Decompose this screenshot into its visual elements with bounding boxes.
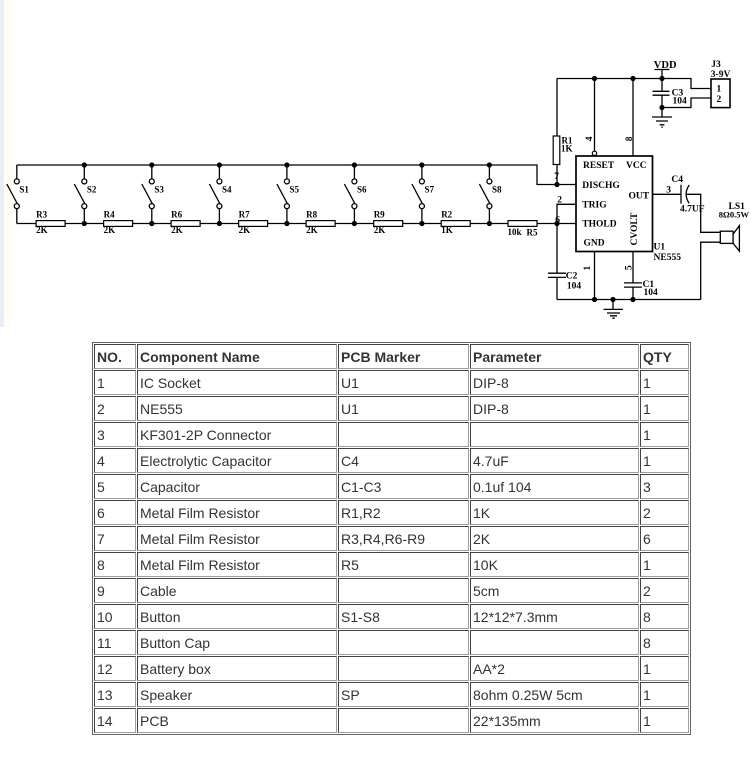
resistor R7 [239, 210, 268, 235]
switch S7 [412, 165, 425, 224]
svg-text:J3: J3 [711, 60, 721, 70]
node junction top [82, 162, 87, 167]
svg-text:2K: 2K [374, 225, 386, 235]
resistor R8 [306, 210, 335, 235]
switch S2 [74, 165, 87, 224]
resistor R2 [441, 210, 470, 235]
node C3 junction [659, 105, 664, 110]
svg-text:4: 4 [585, 136, 595, 141]
svg-text:R9: R9 [374, 210, 385, 220]
svg-text:S1: S1 [19, 184, 29, 194]
svg-text:S6: S6 [357, 184, 367, 194]
svg-text:R7: R7 [239, 210, 250, 220]
svg-text:GND: GND [584, 238, 605, 248]
svg-text:1: 1 [717, 85, 722, 95]
wire [17, 165, 576, 185]
node junction top [419, 162, 424, 167]
switch S6 [344, 165, 357, 224]
svg-text:2K: 2K [306, 225, 318, 235]
node junction bottom [82, 221, 87, 226]
svg-text:104: 104 [673, 97, 688, 107]
svg-text:U1: U1 [654, 242, 666, 252]
switch S5 [277, 165, 290, 224]
wire VDD rail [557, 79, 711, 89]
node junction top [284, 162, 289, 167]
node dots top rail [554, 76, 664, 302]
resistor R9 [374, 210, 403, 235]
svg-text:VDD: VDD [654, 60, 677, 71]
switch S4 [209, 165, 222, 224]
svg-text:S2: S2 [87, 184, 97, 194]
node junction top [217, 162, 222, 167]
svg-text:DISCHG: DISCHG [582, 181, 620, 191]
node junction bottom [284, 221, 289, 226]
capacitor C4 [681, 185, 689, 204]
resistor R5 [508, 221, 538, 238]
svg-text:C2: C2 [566, 271, 578, 281]
svg-text:CVOLT: CVOLT [630, 212, 640, 245]
svg-text:2: 2 [717, 95, 722, 105]
node junction bottom [419, 221, 424, 226]
node junction bottom [217, 221, 222, 226]
node junction bottom [487, 221, 492, 226]
node junction top [149, 162, 154, 167]
switch S3 [142, 165, 155, 224]
svg-text:OUT: OUT [629, 191, 650, 201]
svg-text:S5: S5 [290, 184, 300, 194]
switch S8 [479, 165, 492, 224]
wire [17, 223, 576, 225]
switch S1 [7, 165, 19, 224]
svg-text:R8: R8 [306, 210, 317, 220]
svg-text:R3: R3 [36, 210, 47, 220]
svg-text:104: 104 [567, 282, 582, 292]
svg-text:S4: S4 [222, 184, 232, 194]
op-amp U1 555 IC box [576, 151, 653, 251]
svg-text:THOLD: THOLD [582, 219, 616, 229]
svg-text:C4: C4 [671, 175, 683, 185]
pin number labels [554, 60, 749, 298]
svg-text:S8: S8 [492, 184, 502, 194]
ground main stub [604, 300, 624, 319]
speaker LS1 [720, 226, 739, 252]
wire OUT to speaker [687, 194, 721, 232]
ground C3 [652, 108, 672, 128]
resistor R1 [553, 135, 573, 164]
svg-text:R5: R5 [527, 227, 538, 237]
node pin6 junction [554, 221, 559, 226]
svg-text:10k: 10k [508, 227, 522, 237]
svg-text:S3: S3 [154, 184, 164, 194]
resistor R4 [104, 210, 133, 235]
wire J3 pin2 [662, 98, 711, 108]
svg-text:1K: 1K [561, 144, 573, 154]
node bottom rail dots [592, 297, 597, 302]
svg-text:S7: S7 [425, 184, 435, 194]
svg-text:R2: R2 [441, 210, 452, 220]
svg-text:TRIG: TRIG [582, 200, 607, 210]
power VDD symbol [655, 70, 670, 79]
wire C2 branch [548, 224, 566, 300]
svg-text:VCC: VCC [626, 161, 647, 171]
svg-text:1: 1 [583, 266, 593, 271]
wire bottom rail [557, 299, 701, 301]
wire pin4 [594, 79, 596, 152]
svg-text:2K: 2K [171, 225, 183, 235]
svg-text:1K: 1K [441, 225, 453, 235]
svg-text:NE555: NE555 [654, 253, 682, 263]
wire pin8 [632, 79, 634, 157]
svg-text:R4: R4 [104, 210, 115, 220]
wire pin1 GND [594, 252, 596, 300]
svg-text:4.7UF: 4.7UF [680, 205, 705, 215]
wire pin5 C1 [624, 252, 642, 300]
connector J3 [711, 79, 730, 108]
svg-text:RESET: RESET [583, 161, 615, 171]
wire OUT pin3 [653, 193, 682, 195]
node junction bottom [149, 221, 154, 226]
node junction bottom [352, 221, 357, 226]
svg-text:5: 5 [625, 265, 635, 270]
svg-text:104: 104 [644, 288, 659, 298]
svg-text:3: 3 [666, 185, 671, 195]
node junction top [487, 162, 492, 167]
svg-text:2K: 2K [104, 225, 116, 235]
resistor R3 [36, 210, 65, 235]
wire speaker return [701, 242, 721, 299]
svg-text:8Ω0.5W: 8Ω0.5W [719, 210, 750, 220]
svg-text:2K: 2K [36, 225, 48, 235]
svg-text:2: 2 [557, 196, 562, 206]
resistor R6 [171, 210, 200, 235]
wire R1 branch [556, 79, 558, 185]
svg-text:7: 7 [554, 172, 559, 182]
svg-text:R6: R6 [171, 210, 182, 220]
node pin7 junction [554, 182, 559, 187]
svg-text:2K: 2K [239, 225, 251, 235]
wire TRIG pin2 [557, 204, 576, 223]
capacitor C3 [653, 79, 670, 108]
node junction top [352, 162, 357, 167]
svg-text:6: 6 [555, 216, 560, 226]
svg-text:8: 8 [625, 136, 635, 141]
